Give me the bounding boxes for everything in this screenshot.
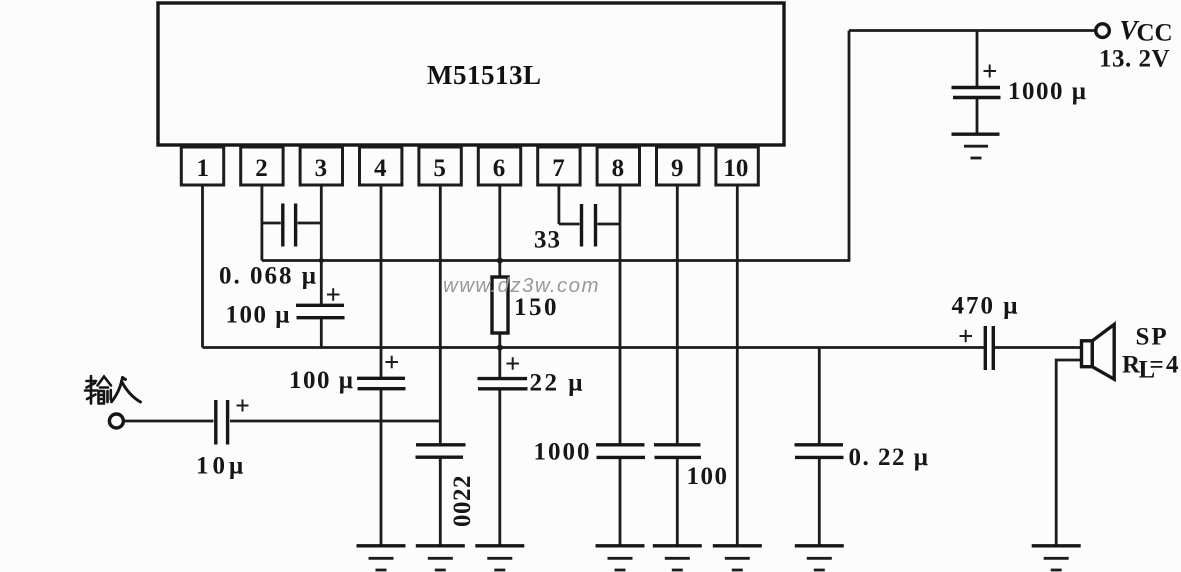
wire pin7 down to capacitor C7 bbox=[558, 185, 561, 224]
wire capacitor C2 bottom to output bus bbox=[320, 319, 323, 348]
wire resistor R1 bottom to output bus bbox=[498, 333, 501, 348]
pin 6 bbox=[478, 147, 520, 185]
svg-text:0022: 0022 bbox=[449, 475, 476, 527]
svg-text:1000 μ: 1000 μ bbox=[1008, 78, 1087, 105]
pin 9 bbox=[657, 147, 699, 185]
ground pin9 bbox=[653, 546, 702, 570]
svg-text:2: 2 bbox=[255, 155, 268, 182]
capacitor C8 1000 on pin8 bbox=[596, 445, 645, 458]
capacitor C7 33 between pin7 and pin8 bbox=[559, 204, 620, 247]
pin 10 bbox=[716, 147, 758, 185]
node junction pin6 and output bus bbox=[497, 345, 503, 351]
wire output bus to capacitor C6 bbox=[498, 348, 501, 378]
wire output bus from pin1 to C10 bbox=[203, 346, 984, 349]
resistor R1 150 on pin6 bbox=[492, 277, 508, 333]
pin 3 bbox=[300, 147, 342, 185]
svg-text:6: 6 bbox=[493, 155, 506, 182]
wire pin4 down to capacitor C4 bbox=[380, 185, 383, 377]
svg-text:100 μ: 100 μ bbox=[289, 367, 354, 394]
polarity plus of C6 bbox=[507, 357, 520, 369]
wire output bus from C10 to speaker bbox=[995, 346, 1082, 349]
polarity plus of C3 bbox=[237, 400, 249, 412]
wire output bus down to capacitor C12 bbox=[818, 348, 821, 445]
ground pin10 bbox=[713, 546, 762, 570]
pin 7 bbox=[538, 147, 580, 185]
ground C12 bbox=[795, 546, 844, 570]
pin 2 bbox=[241, 147, 283, 185]
pin 5 bbox=[419, 147, 461, 185]
pin 4 bbox=[360, 147, 402, 185]
ground pin6 bbox=[475, 546, 524, 570]
wire pin3 down to capacitor C2 bbox=[320, 185, 323, 304]
label RL=4 bbox=[1122, 352, 1179, 384]
ground pin8 bbox=[596, 546, 645, 570]
wire capacitor C8 bottom to ground bbox=[619, 458, 622, 546]
svg-text:1: 1 bbox=[197, 155, 210, 182]
svg-text:100: 100 bbox=[687, 463, 729, 490]
wire pin5 down to capacitor C5 bbox=[439, 185, 442, 445]
capacitor C5 2200 on pin5 bbox=[416, 445, 466, 457]
svg-text:SP: SP bbox=[1136, 324, 1169, 351]
label Vcc bbox=[1120, 15, 1173, 47]
wire Vcc bus horizontal bbox=[262, 259, 849, 262]
polarity plus of C11 bbox=[984, 65, 997, 78]
wire Vcc top horizontal bbox=[849, 29, 1095, 32]
capacitor C12 0.22u bbox=[795, 445, 844, 458]
wire pin1 down to output bus bbox=[201, 185, 204, 348]
svg-text:10: 10 bbox=[723, 155, 748, 182]
svg-text:10μ: 10μ bbox=[196, 453, 247, 480]
svg-text:M51513L: M51513L bbox=[427, 60, 542, 90]
wire capacitor C5 bottom to ground bbox=[439, 458, 442, 546]
capacitor C9 100 on pin9 bbox=[654, 445, 701, 458]
wire Vcc riser vertical bbox=[848, 31, 851, 262]
svg-text:=: = bbox=[1150, 352, 1164, 379]
wire capacitor C6 bottom to ground bbox=[498, 389, 501, 546]
ground for C11 bbox=[952, 134, 1000, 158]
op-amp IC U1 M51513L body bbox=[158, 3, 784, 145]
svg-text:9: 9 bbox=[671, 155, 684, 182]
wire pin6 down to resistor R1 bbox=[498, 185, 501, 277]
wire capacitor C12 bottom to ground bbox=[818, 458, 821, 546]
polarity plus of C10 bbox=[960, 330, 973, 342]
capacitor C1 0.068u between pin2 and pin3 bbox=[262, 204, 321, 247]
ground pin4 bbox=[357, 546, 406, 570]
svg-text:CC: CC bbox=[1137, 20, 1173, 47]
svg-text:www.dz3w.com: www.dz3w.com bbox=[443, 274, 600, 297]
ground pin5 bbox=[416, 546, 465, 570]
wire pin9 down to capacitor C9 bbox=[676, 185, 679, 445]
node Vcc terminal bbox=[1096, 24, 1110, 38]
capacitor C2 100u on pin3 bbox=[296, 305, 345, 317]
label input (shu-ru) hand-drawn glyphs bbox=[85, 376, 111, 404]
svg-text:3: 3 bbox=[315, 155, 328, 182]
capacitor C10 470u output coupling bbox=[985, 326, 993, 370]
wire speaker return down bbox=[1056, 360, 1081, 546]
svg-text:22 μ: 22 μ bbox=[530, 370, 585, 397]
svg-text:1000: 1000 bbox=[534, 439, 592, 466]
svg-text:470 μ: 470 μ bbox=[952, 293, 1020, 320]
capacitor C3 10u input coupling bbox=[216, 400, 228, 445]
svg-text:0. 068 μ: 0. 068 μ bbox=[219, 263, 318, 290]
wire input terminal to capacitor C3 bbox=[123, 420, 213, 423]
svg-text:5: 5 bbox=[433, 155, 446, 182]
wire pin10 down to ground bbox=[736, 185, 739, 546]
svg-text:7: 7 bbox=[552, 155, 565, 182]
wire pin8 down to capacitor C8 bbox=[619, 185, 622, 445]
wire capacitor C3 to pin5 bbox=[230, 420, 440, 423]
svg-text:33: 33 bbox=[534, 227, 561, 254]
capacitor C4 100u on pin4 bbox=[357, 378, 406, 388]
svg-text:150: 150 bbox=[514, 294, 559, 321]
svg-text:0. 22 μ: 0. 22 μ bbox=[849, 444, 930, 471]
svg-text:4: 4 bbox=[1166, 352, 1179, 379]
svg-text:4: 4 bbox=[374, 155, 387, 182]
wire capacitor C4 bottom to ground bbox=[380, 389, 383, 546]
pin 1 bbox=[181, 147, 223, 185]
capacitor C6 22u on pin6 bbox=[478, 379, 528, 389]
speaker SP bbox=[1082, 324, 1115, 379]
capacitor C11 1000u on Vcc rail bbox=[952, 31, 1001, 134]
svg-text:13. 2V: 13. 2V bbox=[1099, 46, 1170, 73]
polarity plus of C4 bbox=[386, 356, 399, 368]
wire pin2 down to Vcc bus bbox=[260, 185, 263, 261]
node junction pin3 and Vcc bus bbox=[319, 258, 324, 263]
wire capacitor C9 bottom to ground bbox=[676, 458, 679, 546]
node input terminal bbox=[109, 414, 123, 428]
polarity plus of C2 bbox=[327, 288, 340, 301]
ground speaker bbox=[1032, 546, 1081, 570]
svg-text:100 μ: 100 μ bbox=[226, 302, 291, 329]
svg-text:8: 8 bbox=[612, 155, 625, 182]
node junction pin6 and Vcc bus bbox=[497, 258, 503, 264]
pin 8 bbox=[597, 147, 639, 185]
